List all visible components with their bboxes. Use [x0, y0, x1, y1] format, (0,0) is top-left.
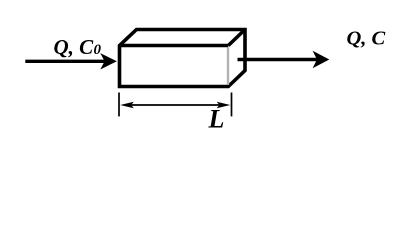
top-right slant edge	[228, 30, 245, 46]
inlet arrowhead	[100, 53, 117, 69]
dimension tick left	[118, 93, 120, 117]
wire: outlet arrow shaft	[238, 51, 330, 68]
svg-text:Q, C: Q, C	[347, 28, 386, 50]
front top edge	[120, 44, 229, 48]
svg-text:0: 0	[94, 42, 102, 58]
svg-text:L: L	[208, 104, 225, 133]
reactor box (3D cuboid)	[120, 30, 246, 87]
outlet arrowhead	[313, 51, 330, 68]
node label Q, C0 (inlet)	[54, 35, 102, 59]
wire: inlet arrow shaft	[25, 53, 117, 69]
svg-text:Q, C: Q, C	[54, 35, 95, 59]
dimension tick right	[231, 93, 233, 117]
node label Q, C (outlet)	[347, 28, 386, 50]
gray front-right edge	[227, 47, 229, 85]
dimension double arrow	[120, 102, 230, 109]
